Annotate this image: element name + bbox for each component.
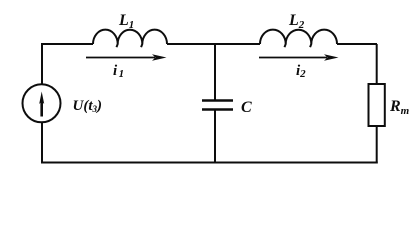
current arrow i1 [86,54,167,61]
svg-text:i1: i1 [113,63,124,80]
current arrow i2 [259,54,339,61]
voltage source internal arrow [39,92,44,117]
svg-text:L1: L1 [118,12,134,31]
svg-text:L2: L2 [288,12,305,31]
wire top-left horizontal [41,43,93,45]
wire right vertical upper [376,44,378,84]
wire top-middle horizontal [167,43,260,45]
wire left vertical upper [41,43,43,84]
capacitor C bottom plate [202,108,233,110]
svg-text:i2: i2 [296,63,306,80]
resistor Rm body [369,84,385,126]
wire middle vertical lower [214,110,216,164]
wire bottom horizontal [41,162,378,164]
svg-text:U(t3): U(t3) [73,98,103,114]
wire middle vertical upper [214,44,216,100]
inductor L1 [93,30,167,48]
inductor L2 [260,30,337,48]
wire left vertical lower [41,123,43,164]
voltage source U1 circle [23,84,61,122]
svg-text:C: C [241,99,252,116]
wire top-right horizontal [337,43,377,45]
wire right vertical lower [376,126,378,164]
svg-text:Rm: Rm [389,98,410,117]
capacitor C top plate [202,99,233,101]
